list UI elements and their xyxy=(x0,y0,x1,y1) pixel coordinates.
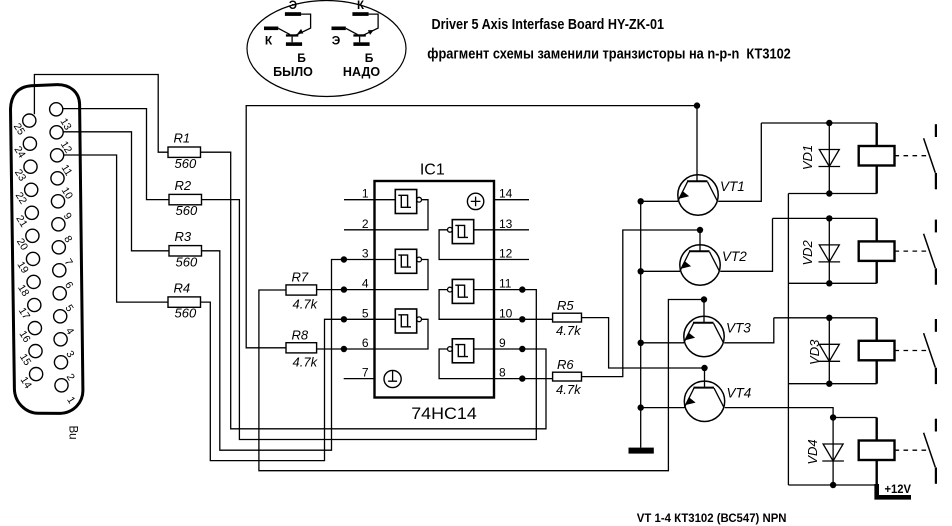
wire IC pin 4 to R7 xyxy=(317,289,375,291)
inverter U1D hysteresis symbol xyxy=(455,345,468,357)
svg-text:НАДО: НАДО xyxy=(343,65,380,79)
diode VD3 triangle xyxy=(819,344,839,361)
node VD1 bottom xyxy=(826,190,832,196)
wire +12V bus vertical xyxy=(787,194,789,486)
svg-text:8: 8 xyxy=(499,366,506,380)
pictogram base bar xyxy=(286,34,298,36)
svg-text:R7: R7 xyxy=(292,270,309,285)
node IC pin 3 xyxy=(341,256,347,262)
svg-text:VD2: VD2 xyxy=(800,239,815,265)
inverter U1F output wire xyxy=(439,230,494,260)
transistor VT4 body xyxy=(684,381,724,421)
wire relay K1 bottom terminal xyxy=(876,166,878,194)
node VT2 base corner xyxy=(697,227,703,233)
wire pin13 to R2 xyxy=(63,109,169,200)
inverter U1B body xyxy=(395,249,416,273)
transistor VT1 collector xyxy=(708,182,718,202)
svg-text:R8: R8 xyxy=(292,327,309,342)
pictogram arrow (into base) xyxy=(297,29,303,34)
node VD2 top xyxy=(826,215,832,221)
inverter U1B input wire xyxy=(375,259,396,261)
wire relay3 top rail xyxy=(774,317,877,319)
wire relay K4 actuator dashed link xyxy=(895,449,928,451)
wire pin25 to R1 xyxy=(34,75,168,153)
wire relay2 bottom rail xyxy=(788,282,876,284)
wire relay K2 top terminal xyxy=(876,218,878,241)
inverter U1A input wire xyxy=(375,199,396,201)
wire IC pin 8 to R6 xyxy=(494,378,553,380)
svg-text:7: 7 xyxy=(362,366,369,380)
node VD2 bottom xyxy=(826,280,832,286)
connector pin 16 hole xyxy=(28,322,41,335)
connector Bu DB25 outline xyxy=(11,85,83,414)
switch S4 moving contact xyxy=(924,433,936,467)
svg-text:4.7k: 4.7k xyxy=(556,382,582,397)
inverter U1D output bubble xyxy=(448,347,453,352)
diode VD3 wire xyxy=(828,318,830,384)
connector pin 15 hole xyxy=(29,345,42,358)
svg-text:4.7k: 4.7k xyxy=(556,323,582,338)
wire R8 to VT1 base xyxy=(246,106,697,348)
wire VT2 collector to relay row2 xyxy=(720,218,772,271)
svg-text:13: 13 xyxy=(499,217,513,231)
connector pin 24 hole xyxy=(23,137,36,150)
transistor VT4 emitter xyxy=(684,388,694,408)
svg-text:3: 3 xyxy=(63,349,76,360)
connector pin 19 hole xyxy=(26,252,39,265)
pictogram top pad xyxy=(352,12,368,16)
inverter U1C input wire xyxy=(375,318,396,320)
inverter U1C output wire xyxy=(375,319,429,349)
svg-text:5: 5 xyxy=(62,303,75,314)
power +12V symbol xyxy=(877,484,911,497)
pictogram base bar xyxy=(353,34,365,36)
transistor VT4 collector xyxy=(714,388,724,408)
wire R2 to IC pin 11 xyxy=(202,200,537,440)
connector pin 13 hole xyxy=(50,103,63,116)
wire relay1 top rail xyxy=(761,122,876,124)
wire IC pin 7 stub xyxy=(344,378,375,380)
connector pin 14 hole xyxy=(29,368,42,381)
svg-text:18: 18 xyxy=(15,282,31,298)
transistor VT3 body xyxy=(684,316,724,356)
svg-text:Bu: Bu xyxy=(67,425,79,439)
inverter U1E body xyxy=(452,279,473,303)
wire VT3 emitter to bus xyxy=(641,342,684,344)
IC U1 74HC14 body xyxy=(375,181,495,398)
inverter U1B output wire xyxy=(375,260,429,290)
wire VT2 emitter to bus xyxy=(641,270,680,272)
svg-text:20: 20 xyxy=(14,236,30,252)
svg-text:560: 560 xyxy=(175,306,197,321)
wire R5 to VT4 base xyxy=(582,318,705,388)
wire IC pin 6 to R8 xyxy=(317,348,375,350)
svg-text:13: 13 xyxy=(57,116,73,132)
svg-text:R1: R1 xyxy=(174,131,191,146)
resistor R8 xyxy=(286,343,317,353)
svg-text:10: 10 xyxy=(499,306,513,320)
inverter U1F hysteresis symbol xyxy=(455,225,468,237)
wire pin12 to R3 xyxy=(63,132,169,251)
svg-text:1: 1 xyxy=(64,395,77,406)
relay K1 coil xyxy=(859,146,895,166)
connector pin 9 hole xyxy=(51,195,64,208)
pictogram arrow (outward) xyxy=(368,30,374,35)
node IC pin 11 xyxy=(519,286,525,292)
svg-text:К: К xyxy=(265,34,273,48)
connector pin 1 hole xyxy=(55,379,68,392)
pictogram base lead xyxy=(359,37,361,43)
wire relay K3 bottom terminal xyxy=(876,360,878,383)
svg-text:12: 12 xyxy=(58,139,74,155)
connector pin 10 hole xyxy=(51,172,64,185)
node IC pin 4 xyxy=(341,286,347,292)
svg-text:8: 8 xyxy=(61,234,74,245)
svg-text:R6: R6 xyxy=(557,357,574,372)
diode VD4 cathode bar xyxy=(822,460,844,462)
pictogram left pad xyxy=(332,27,346,31)
connector pin 21 hole xyxy=(25,206,38,219)
svg-text:4: 4 xyxy=(362,277,369,291)
transistor VT1 emitter arrow xyxy=(679,191,689,199)
wire VT1 collector to relay row1 xyxy=(718,123,761,201)
wire relay1 bottom rail xyxy=(788,193,876,195)
switch S3 moving contact xyxy=(924,333,936,367)
node bus VT2 xyxy=(638,268,644,274)
svg-text:VD1: VD1 xyxy=(800,145,815,170)
resistor R4 xyxy=(168,297,201,307)
diode VD2 cathode bar xyxy=(819,261,841,263)
inverter U1D output wire xyxy=(439,349,494,379)
node IC pin 9 xyxy=(519,346,525,352)
svg-text:2: 2 xyxy=(362,217,369,231)
pictogram left wire xyxy=(346,28,358,34)
svg-text:11: 11 xyxy=(499,277,512,291)
wire relay K2 actuator dashed link xyxy=(895,250,928,252)
pictogram top wire xyxy=(296,14,311,35)
pictogram left wire xyxy=(278,28,290,34)
switch S2 upper contact xyxy=(935,220,937,233)
svg-text:4.7k: 4.7k xyxy=(293,297,319,312)
connector pin 8 hole xyxy=(52,218,65,231)
transistor VT1 emitter xyxy=(678,182,688,202)
inverter U1A hysteresis symbol xyxy=(398,195,411,207)
transistor VT2 body xyxy=(680,245,720,285)
svg-text:15: 15 xyxy=(17,352,33,368)
node VT1 base corner xyxy=(694,102,700,108)
wire IC pin 2 stub xyxy=(344,229,375,231)
wire IC pin 14 stub xyxy=(494,199,529,201)
svg-text:К: К xyxy=(357,0,365,12)
wire relay K2 bottom terminal xyxy=(876,261,878,283)
svg-text:VT2: VT2 xyxy=(722,249,747,264)
svg-text:R4: R4 xyxy=(174,280,191,295)
node IC pin 5 xyxy=(341,316,347,322)
node IC pin 8 xyxy=(519,375,525,381)
switch S4 lower contact xyxy=(935,467,937,483)
svg-text:2: 2 xyxy=(64,372,77,383)
inverter U1E input wire xyxy=(474,289,494,291)
svg-text:17: 17 xyxy=(16,305,32,321)
switch S1 moving contact xyxy=(924,138,936,172)
diode VD2 wire xyxy=(828,218,830,283)
diode VD2 triangle xyxy=(819,245,839,262)
wire relay K4 top terminal xyxy=(876,418,878,441)
wire relay3 bottom rail xyxy=(788,383,876,385)
relay K4 coil xyxy=(859,441,895,461)
svg-text:VT4: VT4 xyxy=(727,386,752,401)
svg-text:7: 7 xyxy=(62,257,75,268)
resistor R3 xyxy=(169,246,202,256)
transistor VT4 emitter arrow xyxy=(686,397,696,405)
wire relay K4 bottom terminal xyxy=(876,460,878,485)
inverter U1A body xyxy=(395,190,416,214)
IC power symbol + xyxy=(467,193,483,209)
connector pin 12 hole xyxy=(50,126,63,139)
wire R6 to VT2 base xyxy=(582,230,701,377)
node IC pin 10 xyxy=(519,316,525,322)
connector pin 5 hole xyxy=(53,287,66,300)
svg-text:19: 19 xyxy=(15,259,31,275)
inverter U1E output bubble xyxy=(448,287,453,292)
resistor R1 xyxy=(168,147,201,157)
relay K3 coil xyxy=(859,341,895,361)
diode VD1 wire xyxy=(828,123,830,194)
svg-text:VT1: VT1 xyxy=(720,179,745,194)
svg-text:21: 21 xyxy=(13,213,29,229)
svg-text:22: 22 xyxy=(13,190,29,206)
connector pin 18 hole xyxy=(27,275,40,288)
svg-text:12: 12 xyxy=(499,247,513,261)
switch S1 upper contact xyxy=(935,124,937,137)
wire R3 to IC pin 3 xyxy=(202,251,375,450)
switch S2 lower contact xyxy=(935,268,937,284)
svg-text:6: 6 xyxy=(362,336,369,350)
svg-text:3: 3 xyxy=(362,247,369,261)
transistor VT3 emitter xyxy=(684,323,694,343)
transistor VT4 base bar xyxy=(694,387,715,389)
resistor R6 xyxy=(553,372,582,381)
connector pin 4 hole xyxy=(54,310,67,323)
inverter U1E hysteresis symbol xyxy=(455,285,468,297)
connector pin 2 hole xyxy=(54,356,67,369)
transistor VT2 emitter arrow xyxy=(681,261,691,269)
wire relay K1 top terminal xyxy=(876,123,878,146)
svg-text:23: 23 xyxy=(12,167,28,183)
diode VD3 cathode bar xyxy=(819,360,841,362)
wire relay K3 actuator dashed link xyxy=(895,350,928,352)
resistor R2 xyxy=(169,194,202,204)
svg-text:VT3: VT3 xyxy=(726,321,751,336)
svg-text:25: 25 xyxy=(11,121,27,137)
connector pin 11 hole xyxy=(51,149,64,162)
wire VT3 collector to relay row3 xyxy=(724,318,774,343)
svg-text:VD4: VD4 xyxy=(805,439,820,464)
svg-text:Driver 5 Axis Interfase Board: Driver 5 Axis Interfase Board HY-ZK-01 xyxy=(432,17,665,33)
inverter U1E output wire xyxy=(439,290,494,320)
svg-text:6: 6 xyxy=(62,280,75,291)
wire ground bus xyxy=(640,201,642,447)
inverter U1A output wire xyxy=(375,200,429,230)
connector pin 22 hole xyxy=(25,183,38,196)
svg-text:74HC14: 74HC14 xyxy=(411,405,477,423)
inverter U1A output bubble xyxy=(417,197,422,202)
relay K2 coil xyxy=(859,241,895,261)
node IC pin 6 xyxy=(341,346,347,352)
pictogram top wire xyxy=(363,14,378,35)
svg-text:Э: Э xyxy=(289,0,297,12)
svg-text:560: 560 xyxy=(176,203,198,218)
svg-text:9: 9 xyxy=(61,211,74,222)
svg-text:9: 9 xyxy=(499,336,506,350)
pictogram left pad xyxy=(264,27,278,31)
wire R7 to VT3 base xyxy=(259,290,704,471)
node VD1 top xyxy=(826,120,832,126)
svg-text:14: 14 xyxy=(18,375,34,391)
diode VD1 triangle xyxy=(819,150,839,167)
wire IC pin 12 stub xyxy=(494,259,529,261)
svg-text:VD3: VD3 xyxy=(807,339,822,365)
diode VD1 cathode bar xyxy=(819,166,841,168)
connector pin 6 hole xyxy=(53,264,66,277)
connector pin 20 hole xyxy=(26,229,39,242)
node VD3 top xyxy=(826,315,832,321)
connector pin 7 hole xyxy=(52,241,65,254)
wire IC pin 10 to R5 xyxy=(494,318,553,320)
svg-text:560: 560 xyxy=(176,254,198,269)
svg-text:R3: R3 xyxy=(175,229,192,244)
svg-text:фрагмент схемы заменили транзи: фрагмент схемы заменили транзисторы на n… xyxy=(427,47,791,63)
inverter U1C output bubble xyxy=(417,317,422,322)
connector pin 25 hole xyxy=(23,114,36,127)
node bus VT3 xyxy=(638,340,644,346)
wire IC pin 13 stub xyxy=(494,229,529,231)
pictogram bottom pad xyxy=(286,42,302,46)
svg-text:560: 560 xyxy=(175,156,197,171)
transistor VT1 base bar xyxy=(687,180,708,182)
node bus VT4 xyxy=(638,404,644,410)
wire relay K3 top terminal xyxy=(876,318,878,341)
diode VD4 triangle xyxy=(823,444,843,461)
switch S2 moving contact xyxy=(924,234,936,268)
wire relay4 bottom rail xyxy=(788,484,876,486)
switch S1 lower contact xyxy=(935,173,937,189)
IC ground symbol pin7 xyxy=(384,370,401,387)
svg-text:R5: R5 xyxy=(557,298,574,313)
node VD3 bottom xyxy=(826,381,832,387)
resistor R5 xyxy=(553,313,582,322)
svg-text:Б: Б xyxy=(365,51,374,65)
svg-text:IC1: IC1 xyxy=(420,162,445,179)
svg-text:24: 24 xyxy=(11,144,27,160)
wire IC pin 1 stub xyxy=(344,199,375,201)
node VD4 top xyxy=(830,414,836,420)
resistor R7 xyxy=(286,285,317,295)
node VD4 bottom xyxy=(830,482,836,488)
svg-text:16: 16 xyxy=(16,329,32,345)
svg-text:5: 5 xyxy=(362,306,369,320)
svg-text:VT 1-4 КТ3102 (ВС547) NPN: VT 1-4 КТ3102 (ВС547) NPN xyxy=(637,511,787,525)
inverter U1C body xyxy=(395,309,416,333)
svg-text:4.7k: 4.7k xyxy=(293,354,319,369)
wire VT1 emitter to bus xyxy=(641,200,678,202)
wire relay2 top rail xyxy=(773,217,877,219)
pictogram bottom pad xyxy=(353,42,369,46)
transistor VT3 collector xyxy=(714,323,724,343)
wire relay4 top rail xyxy=(833,417,877,419)
svg-text:4: 4 xyxy=(63,326,76,337)
transistor VT3 emitter arrow xyxy=(685,333,695,341)
transistor VT1 body xyxy=(678,175,718,215)
switch S3 lower contact xyxy=(935,368,937,384)
transistor VT2 base bar xyxy=(689,250,710,252)
connector pin 17 hole xyxy=(28,298,41,311)
svg-text:+12V: +12V xyxy=(885,484,912,496)
wire R1 to IC pin 9 xyxy=(201,152,547,429)
inverter U1F output bubble xyxy=(448,227,453,232)
connector pin 23 hole xyxy=(24,160,37,173)
wire relay K1 actuator dashed link xyxy=(895,155,928,157)
inverter U1C hysteresis symbol xyxy=(398,315,411,327)
svg-text:1: 1 xyxy=(362,187,369,201)
node VT4 base corner xyxy=(701,365,707,371)
svg-text:R2: R2 xyxy=(175,178,192,193)
switch S4 upper contact xyxy=(935,419,937,432)
svg-text:11: 11 xyxy=(59,162,75,178)
pictogram top pad xyxy=(285,12,301,16)
transistor VT2 emitter xyxy=(680,252,690,271)
svg-text:Э: Э xyxy=(332,34,341,48)
inverter U1F body xyxy=(452,220,473,244)
inverter U1F input wire xyxy=(474,229,494,231)
inverter U1B hysteresis symbol xyxy=(398,255,411,267)
inverter U1D body xyxy=(452,339,473,363)
callout ellipse xyxy=(247,1,406,97)
wire VT4 emitter to bus xyxy=(641,407,685,409)
transistor VT2 collector xyxy=(710,252,720,271)
wire VT4 collector to relay row4 xyxy=(725,408,833,418)
inverter U1B output bubble xyxy=(417,257,422,262)
node bus VT1 xyxy=(638,198,644,204)
node VT3 base corner xyxy=(701,296,707,302)
connector pin 3 hole xyxy=(54,333,67,346)
inverter U1D input wire xyxy=(474,348,494,350)
switch S3 upper contact xyxy=(935,319,937,332)
diode VD4 wire xyxy=(832,418,834,486)
ground symbol xyxy=(629,448,654,454)
svg-text:10: 10 xyxy=(59,185,75,201)
svg-text:14: 14 xyxy=(499,187,513,201)
svg-text:Б: Б xyxy=(297,51,306,65)
pictogram base lead xyxy=(291,37,293,43)
wire R4 to IC pin 5 xyxy=(201,302,375,461)
wire pin11 to R4 xyxy=(64,155,168,302)
svg-text:БЫЛО: БЫЛО xyxy=(273,65,313,79)
transistor VT3 base bar xyxy=(693,322,714,324)
